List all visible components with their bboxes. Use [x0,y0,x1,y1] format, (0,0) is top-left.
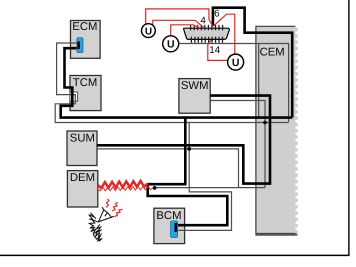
svg-text:SUM: SUM [70,133,95,145]
DLC connector (16-pin trapezoid) [184,28,230,39]
frame bottom edge [0,254,350,256]
wire SWM CAN-L (thin) [210,101,265,188]
DLC pins top row [191,25,223,29]
wire DLC pin6 to CEM (thick) [213,8,292,118]
voltmeter U2 [163,36,179,52]
junction dot DEM thin line [153,186,157,190]
svg-text:6: 6 [214,9,220,20]
CEM inner connector box left edge [258,44,260,118]
module CEM (gray box with torn right edge) [255,26,298,234]
svg-text:DEM: DEM [70,172,95,184]
svg-text:4: 4 [200,15,206,26]
voltmeter U3 [228,54,244,70]
wire DEM to BCM CAN-H (thick) [148,184,228,226]
connector pin ECM (blue) [77,38,83,53]
module TCM [70,76,101,111]
module BCM [154,208,185,243]
module SWM [179,79,210,114]
measurement lead U1 to pin6 (red) [146,9,213,27]
voltmeter U1 [142,24,156,38]
module DEM [67,171,97,207]
svg-text:U: U [167,39,175,51]
wire CAN-L ECM to bus (thin) [55,43,288,123]
svg-text:SWM: SWM [181,80,209,92]
measurement lead pin6 to U3 (red) [213,14,234,54]
svg-text:U: U [145,26,152,37]
module SUM [67,131,97,166]
wire bus tee to SWM (thick) [148,118,186,185]
junction dot CEM bus [263,121,267,125]
frame right edge [348,0,350,256]
wire U2 to CEM (thin) [179,44,289,123]
DLC pins bottom row [191,37,222,42]
damaged wire DEM thick (red zigzag) [98,181,148,188]
damaged wire DEM thin (red zigzag) [98,186,153,191]
svg-text:14: 14 [209,45,220,56]
connector pin BCM (blue) [171,221,178,238]
module ECM [71,21,101,59]
svg-text:TCM: TCM [73,77,97,89]
svg-text:BCM: BCM [156,210,181,222]
noise rays (red) [106,199,123,217]
wire SUM CAN-L (thin) [97,149,239,188]
svg-text:CEM: CEM [260,47,285,59]
junction dot SUM line [187,147,191,151]
measurement lead pin14 to U3 (red) [208,40,228,61]
measurement lead U2 to pin5 (red) [171,25,200,36]
wire CAN-H ECM-TCM-bus (thick) [61,48,293,117]
wire SUM CAN-H (thick) [97,96,270,184]
wire DEM CAN-L after damage (thin) [155,187,265,189]
wire BCM CAN-L (thin) [177,123,232,231]
noise source icon (megaphone with scribble) [89,207,114,241]
svg-text:U: U [232,57,240,69]
svg-text:ECM: ECM [72,21,97,33]
TCM connector square [70,92,78,101]
measurement lead U1 to pin4 (red) [153,20,204,28]
